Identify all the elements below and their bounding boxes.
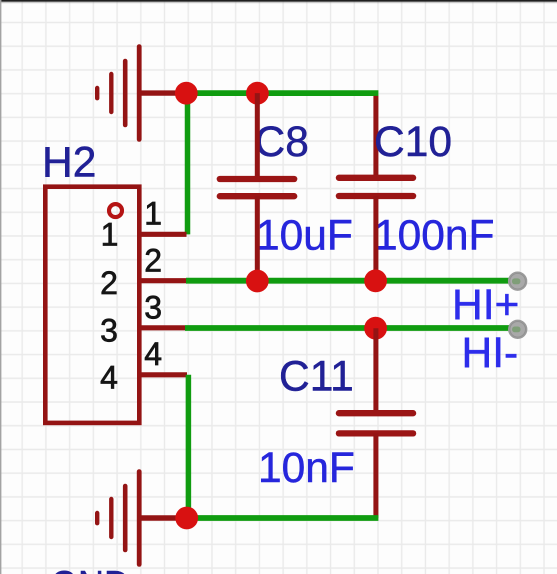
svg-text:100nF: 100nF bbox=[374, 213, 495, 260]
svg-text:C10: C10 bbox=[374, 119, 452, 166]
svg-text:3: 3 bbox=[100, 312, 118, 348]
capacitor C8 plates bbox=[220, 179, 294, 196]
pin 2 stub bbox=[141, 278, 187, 283]
svg-text:HI+: HI+ bbox=[452, 282, 519, 329]
svg-text:4: 4 bbox=[144, 336, 162, 372]
ground GND top bbox=[97, 47, 139, 140]
wire ground stub bottom bbox=[139, 515, 184, 520]
pin 1 stub bbox=[141, 232, 187, 237]
node F junction bottom bbox=[175, 507, 198, 530]
capacitor C10 bottom lead bbox=[373, 196, 378, 281]
pin 1 polarity circle bbox=[109, 204, 122, 217]
capacitor C8 top lead bbox=[255, 93, 260, 176]
node A junction bbox=[175, 82, 198, 105]
svg-text:HI-: HI- bbox=[462, 330, 519, 377]
pin 3 stub bbox=[141, 325, 186, 330]
svg-text:1: 1 bbox=[101, 217, 119, 253]
wire net HI- row bbox=[185, 325, 514, 331]
svg-text:C8: C8 bbox=[255, 119, 309, 166]
svg-text:2: 2 bbox=[100, 265, 118, 301]
wire pin 4 vertical bbox=[186, 375, 192, 518]
svg-text:1: 1 bbox=[144, 196, 162, 232]
connector H2 body bbox=[45, 187, 139, 423]
svg-text:C11: C11 bbox=[279, 353, 354, 400]
capacitor C10 top lead bbox=[373, 96, 378, 176]
wire net GND bottom horizontal bbox=[187, 515, 379, 521]
node C junction C8 bottom bbox=[246, 270, 269, 293]
node E junction C11 top bbox=[364, 317, 387, 340]
svg-text:10uF: 10uF bbox=[256, 213, 353, 260]
sheet border top edge bbox=[0, 0, 557, 2]
svg-text:GND: GND bbox=[50, 564, 130, 574]
svg-text:H2: H2 bbox=[42, 140, 96, 187]
capacitor C11 top lead bbox=[373, 328, 378, 413]
wire net HI+ row bbox=[186, 278, 514, 284]
ground GND bottom bbox=[97, 472, 139, 565]
svg-text:2: 2 bbox=[144, 242, 162, 278]
pin 4 stub bbox=[141, 372, 188, 377]
node B junction C8 top bbox=[246, 82, 269, 105]
wire net GND top horizontal bbox=[186, 90, 378, 96]
svg-text:4: 4 bbox=[100, 359, 118, 395]
wire ground stub to node A bbox=[139, 90, 184, 95]
capacitor C11 plates bbox=[339, 413, 413, 433]
net port HI+ endpoint bbox=[509, 272, 527, 290]
node D junction C10 bottom bbox=[364, 269, 387, 292]
svg-text:10nF: 10nF bbox=[258, 445, 355, 492]
sheet border left edge bbox=[0, 0, 1, 574]
wire net GND top vertical to pin 1 bbox=[185, 93, 191, 234]
capacitor C8 bottom lead bbox=[255, 196, 260, 281]
svg-text:3: 3 bbox=[144, 289, 162, 325]
capacitor C10 plates bbox=[339, 178, 413, 196]
capacitor C11 bottom lead bbox=[373, 433, 378, 518]
net port HI- endpoint bbox=[509, 320, 527, 338]
